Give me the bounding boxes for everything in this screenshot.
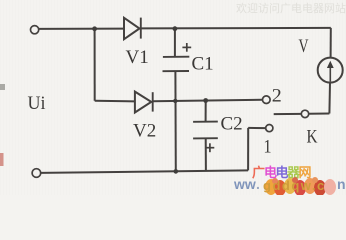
svg-text:C2: C2 <box>221 113 243 134</box>
svg-text:1: 1 <box>264 136 272 157</box>
svg-text:gddqw.c: gddqw.c <box>263 178 326 193</box>
svg-text:n: n <box>337 176 346 192</box>
svg-text:V2: V2 <box>133 121 156 142</box>
svg-text:ww: ww <box>233 176 256 192</box>
svg-text:V: V <box>299 36 309 57</box>
svg-text:Ui: Ui <box>28 93 46 114</box>
svg-text:2: 2 <box>272 85 282 106</box>
svg-text:K: K <box>307 127 318 148</box>
svg-text:欢迎访问广电电器网站: 欢迎访问广电电器网站 <box>236 1 346 15</box>
svg-text:.: . <box>256 176 260 192</box>
svg-text:V1: V1 <box>126 47 149 68</box>
svg-text:C1: C1 <box>192 54 214 75</box>
